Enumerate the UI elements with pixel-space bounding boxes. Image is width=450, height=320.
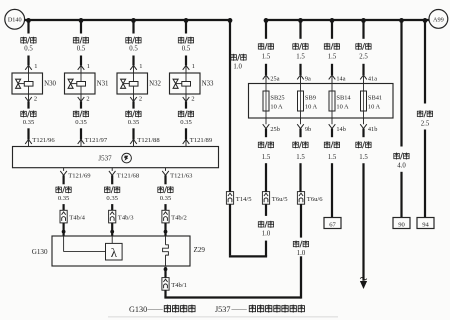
wire — [185, 56, 187, 66]
wire: ground return path to T6u/6 — [164, 256, 301, 298]
wire label black/yellow 1.5 — [324, 141, 339, 161]
wire — [362, 64, 364, 75]
svg-text:9a: 9a — [305, 75, 311, 82]
svg-text:41a: 41a — [368, 75, 377, 82]
svg-text:SB25: SB25 — [270, 95, 284, 102]
svg-text:25b: 25b — [270, 126, 279, 133]
wire — [132, 101, 134, 108]
wire label white/red 1.5 — [293, 43, 308, 61]
wire — [400, 172, 402, 218]
wire — [185, 20, 187, 34]
connector T4b/3 — [109, 210, 135, 223]
svg-text:G130: G130 — [129, 305, 147, 314]
wire — [27, 56, 29, 66]
wire — [424, 20, 426, 104]
svg-text:1.0: 1.0 — [297, 250, 306, 257]
svg-text:——: —— — [231, 304, 248, 313]
wire — [299, 163, 301, 191]
svg-text:67: 67 — [329, 221, 336, 228]
wire — [62, 223, 66, 236]
wire — [299, 20, 301, 39]
oxygen sensor G130 / heater Z29 box — [32, 236, 206, 266]
svg-text:0.35: 0.35 — [106, 195, 118, 202]
wire — [331, 20, 333, 39]
wire label blue/white 0.5 — [126, 37, 141, 53]
wire — [27, 20, 29, 34]
svg-text:T4b/3: T4b/3 — [118, 214, 134, 221]
pin 1 of N31 — [78, 63, 90, 73]
wire label grey/white 0.35 — [105, 186, 120, 202]
svg-text:T6u/5: T6u/5 — [272, 196, 288, 203]
svg-text:10 A: 10 A — [270, 104, 283, 111]
svg-text:T121/88: T121/88 — [137, 137, 160, 144]
svg-text:0.35: 0.35 — [23, 119, 35, 126]
wire — [300, 204, 302, 237]
svg-text:T4b/4: T4b/4 — [69, 214, 85, 221]
caption: G130 oxygen sensor, J537 engine control unit — [108, 304, 338, 317]
svg-text:2.5: 2.5 — [359, 54, 368, 61]
svg-text:1.5: 1.5 — [262, 154, 271, 161]
wire — [265, 163, 267, 191]
svg-text:1.5: 1.5 — [296, 154, 305, 161]
svg-text:0.5: 0.5 — [129, 45, 138, 52]
wire — [265, 129, 267, 138]
wire — [400, 20, 402, 147]
svg-text:9b: 9b — [305, 126, 311, 133]
wire — [111, 204, 113, 210]
wire — [164, 204, 166, 210]
node: junction on bus, fuse SB14 column — [330, 18, 335, 23]
svg-text:1.5: 1.5 — [328, 154, 337, 161]
node: junction on bus, fuse SB25 column — [264, 18, 269, 23]
node: heater ground exit — [164, 267, 168, 278]
pin 2 of N30 — [25, 94, 37, 103]
svg-text:1.5: 1.5 — [359, 154, 368, 161]
terminal box 90 — [393, 218, 410, 229]
svg-text:——: —— — [147, 304, 164, 313]
pin T121/69 on J537 — [60, 168, 91, 179]
pin 25b — [263, 118, 280, 133]
wire inside G130 box — [64, 236, 106, 252]
svg-text:D140: D140 — [8, 17, 22, 24]
wire label blue/white 1.0 — [231, 54, 246, 71]
connector T6u/5 — [262, 192, 288, 205]
svg-text:1.5: 1.5 — [328, 54, 337, 61]
svg-text:10 A: 10 A — [368, 104, 381, 111]
wire label brown/white 0.35 — [158, 186, 173, 202]
svg-text:90: 90 — [398, 221, 405, 228]
pin 25a — [263, 75, 280, 84]
wire label blue/white 0.5 — [73, 37, 88, 53]
wire — [299, 64, 301, 75]
wire — [265, 20, 267, 39]
pin 1 of N32 — [130, 63, 142, 73]
svg-text:T4b/1: T4b/1 — [171, 282, 187, 289]
svg-text:1: 1 — [192, 63, 195, 70]
wire: U-link between T14/5 and T6u/5 — [229, 204, 267, 256]
svg-text:4.0: 4.0 — [397, 163, 406, 170]
resistor: heater element Z29 — [163, 236, 169, 266]
wire — [362, 20, 364, 39]
svg-text:25a: 25a — [270, 75, 279, 82]
fuse SB41 10A — [361, 84, 383, 119]
pin 41b — [360, 118, 377, 133]
svg-text:0.5: 0.5 — [182, 45, 191, 52]
wire label white/red 1.5 — [324, 43, 339, 61]
pin T121/97 on J537 — [78, 137, 108, 147]
op-amp-style control unit J537 (engine control unit) — [13, 147, 219, 168]
svg-text:J537: J537 — [98, 155, 112, 163]
svg-text:N32: N32 — [149, 80, 161, 87]
svg-text:T121/68: T121/68 — [117, 172, 140, 179]
wire label white/red 2.5 — [356, 43, 371, 61]
svg-text:T121/69: T121/69 — [68, 172, 91, 179]
wire label white/red 2.5 — [417, 110, 432, 127]
wire — [80, 20, 82, 34]
svg-text:0.5: 0.5 — [24, 45, 33, 52]
svg-text:N30: N30 — [44, 80, 56, 87]
svg-text:0.35: 0.35 — [58, 195, 70, 202]
wire — [62, 175, 64, 184]
wire: drop from left bus to T14/5 — [229, 20, 231, 192]
pin T121/96 on J537 — [25, 137, 55, 147]
svg-text:T14/5: T14/5 — [236, 196, 252, 203]
wire — [62, 204, 64, 210]
svg-text:14a: 14a — [336, 75, 345, 82]
node: junction on bus, injector N31 column — [79, 18, 84, 23]
pin 14b — [329, 118, 346, 133]
wire — [164, 175, 166, 184]
svg-text:N33: N33 — [202, 80, 214, 87]
wire — [27, 101, 29, 108]
svg-text:2: 2 — [86, 96, 89, 103]
wire label grey/red 0.35 — [56, 186, 71, 202]
svg-text:2: 2 — [139, 96, 142, 103]
svg-text:T121/96: T121/96 — [32, 137, 55, 144]
connector T4b/2 — [162, 210, 187, 223]
wire — [362, 129, 364, 138]
wire label blue/white 0.5 — [21, 37, 36, 53]
wire label white/red 1.5 — [258, 43, 273, 61]
svg-text:SB14: SB14 — [336, 95, 351, 102]
svg-text:0.35: 0.35 — [160, 195, 172, 202]
wire — [80, 128, 82, 139]
svg-text:0.35: 0.35 — [128, 119, 140, 126]
terminal box 67 — [324, 218, 341, 229]
pin 9a — [297, 75, 311, 84]
svg-text:N31: N31 — [97, 80, 109, 87]
arrow: wire continuation — [360, 277, 367, 289]
wire — [132, 56, 134, 66]
wire — [424, 130, 426, 218]
svg-text:1.0: 1.0 — [262, 231, 271, 238]
terminal circle A99 — [429, 10, 448, 29]
wire — [185, 101, 187, 108]
terminal box 94 — [417, 218, 434, 229]
svg-text:SB41: SB41 — [368, 95, 382, 102]
svg-text:0.35: 0.35 — [75, 119, 87, 126]
node: junction on bus, fuse SB41 column — [361, 18, 366, 23]
wire — [164, 223, 168, 236]
svg-text:14b: 14b — [336, 126, 345, 133]
connector T4b/1 — [162, 278, 187, 291]
pin 41a — [360, 75, 377, 84]
wire label purple/blue 0.35 — [178, 110, 193, 126]
wire label white/red 4.0 — [394, 153, 409, 170]
svg-text:10 A: 10 A — [336, 104, 349, 111]
node: junction on bus, injector N32 column — [131, 18, 136, 23]
node: junction, column to box 90 — [399, 18, 404, 23]
wire label blue/red 1.5 — [293, 141, 308, 161]
fuse SB25 10A — [263, 84, 285, 119]
wire — [111, 236, 113, 243]
pin T121/68 on J537 — [109, 168, 140, 179]
svg-text:A99: A99 — [433, 16, 444, 23]
wire: left supply bus from D140 — [25, 19, 231, 21]
terminal circle D140 — [5, 9, 25, 29]
wire — [185, 128, 187, 139]
wire label blue/white 1.0 — [258, 221, 273, 238]
svg-text:0.35: 0.35 — [180, 119, 192, 126]
pin 2 of N32 — [130, 94, 142, 103]
svg-text:2: 2 — [191, 96, 194, 103]
pin 2 of N31 — [78, 94, 90, 103]
wire — [265, 204, 267, 216]
wire — [331, 129, 333, 138]
wire — [299, 129, 301, 138]
injector N32 — [117, 73, 162, 94]
svg-text:0.5: 0.5 — [77, 45, 86, 52]
node: junction on bus, fuse SB9 column — [298, 18, 303, 23]
connector T14/5 — [226, 192, 252, 205]
fuse SB9 10A — [298, 84, 318, 119]
svg-text:T6u/6: T6u/6 — [307, 196, 323, 203]
node: junction, column to box 94 — [423, 18, 428, 23]
pin T121/88 on J537 — [130, 137, 160, 147]
pin 1 of N30 — [25, 63, 37, 73]
svg-text:T4b/2: T4b/2 — [171, 214, 187, 221]
wire — [362, 163, 364, 281]
connector T6u/6 — [297, 192, 323, 205]
node: end of left bus — [228, 18, 233, 23]
injector N31 — [65, 73, 110, 94]
svg-text:1.5: 1.5 — [296, 54, 305, 61]
pin 2 of N33 — [183, 94, 195, 103]
wire — [27, 128, 29, 139]
svg-text:J537: J537 — [215, 305, 230, 314]
injector N33 — [170, 73, 215, 94]
wire — [80, 56, 82, 66]
svg-text:1: 1 — [139, 63, 142, 70]
wire — [265, 64, 267, 75]
svg-text:1: 1 — [87, 63, 90, 70]
wire — [132, 128, 134, 139]
svg-text:41b: 41b — [368, 126, 377, 133]
svg-text:1.0: 1.0 — [233, 64, 242, 71]
wire — [80, 101, 82, 108]
injector N30 — [12, 73, 57, 94]
wire: right supply bus to A99 — [265, 19, 429, 21]
wire — [110, 223, 114, 236]
svg-text:T121/89: T121/89 — [190, 137, 213, 144]
pin 9b — [297, 118, 311, 133]
svg-text:10 A: 10 A — [305, 104, 318, 111]
node: junction on bus, injector N30 column — [26, 18, 31, 23]
svg-text:T121/63: T121/63 — [170, 172, 193, 179]
pin T121/89 on J537 — [183, 137, 213, 147]
svg-text:Z29: Z29 — [194, 246, 206, 254]
svg-text:G130: G130 — [32, 248, 48, 256]
svg-text:94: 94 — [422, 221, 429, 228]
pin 1 of N33 — [183, 63, 195, 73]
wire label blue/red 1.0 — [293, 241, 308, 257]
wire — [132, 20, 134, 34]
svg-text:T121/97: T121/97 — [85, 137, 108, 144]
svg-text:1: 1 — [34, 63, 37, 70]
svg-text:2: 2 — [34, 96, 37, 103]
wire label purple/yellow 0.35 — [126, 110, 141, 126]
svg-text:λ: λ — [111, 245, 118, 260]
svg-text:SB9: SB9 — [305, 95, 316, 102]
wire — [111, 175, 113, 184]
wire label purple/brown 0.35 — [21, 110, 36, 126]
pin T121/63 on J537 — [162, 168, 193, 179]
lambda sensing cell — [106, 243, 123, 260]
svg-text:1.5: 1.5 — [262, 54, 271, 61]
wire label blue/black 1.5 — [258, 141, 273, 161]
node: junction on bus, injector N33 column — [184, 18, 189, 23]
svg-text:2.5: 2.5 — [421, 120, 430, 127]
pin 14a — [329, 75, 346, 84]
fuse holder box — [249, 84, 394, 119]
connector T4b/4 — [60, 210, 86, 223]
wire label purple/green 0.35 — [73, 110, 88, 126]
wire label blue/white 1.5 — [356, 141, 371, 161]
wire — [331, 163, 333, 217]
wire label blue/white 0.5 — [178, 37, 193, 53]
wire — [331, 64, 333, 75]
fuse SB14 10A — [329, 84, 351, 119]
